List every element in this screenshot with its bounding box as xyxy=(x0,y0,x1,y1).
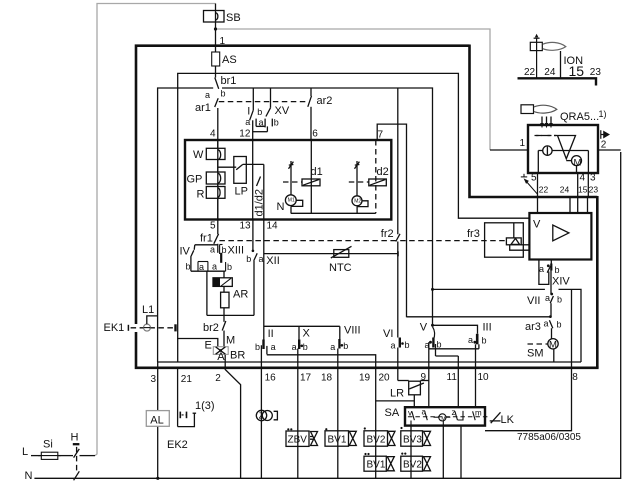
svg-text:SB: SB xyxy=(226,12,241,24)
svg-text:19: 19 xyxy=(359,372,371,383)
svg-text:17: 17 xyxy=(300,372,312,383)
svg-text:BV2: BV2 xyxy=(403,460,422,471)
svg-text:16: 16 xyxy=(265,372,277,383)
svg-text:L: L xyxy=(22,446,28,458)
svg-text:12: 12 xyxy=(239,128,251,139)
svg-text:b: b xyxy=(274,118,279,128)
svg-text:fr1: fr1 xyxy=(200,233,213,245)
svg-text:18: 18 xyxy=(321,372,333,383)
svg-text:XV: XV xyxy=(275,105,290,117)
svg-text:a: a xyxy=(212,262,217,272)
svg-text:BV2: BV2 xyxy=(367,434,386,445)
svg-text:M: M xyxy=(574,158,582,169)
svg-text:VII: VII xyxy=(527,295,540,307)
svg-text:b: b xyxy=(246,254,251,264)
svg-text:I: I xyxy=(247,106,250,118)
svg-text:LR: LR xyxy=(390,388,404,400)
svg-text:b: b xyxy=(186,262,191,272)
svg-text:9: 9 xyxy=(421,372,427,383)
svg-text:21: 21 xyxy=(181,374,193,385)
svg-text:5: 5 xyxy=(210,221,216,232)
svg-text:b: b xyxy=(303,342,308,352)
svg-text:22: 22 xyxy=(524,67,536,78)
svg-text:4: 4 xyxy=(210,129,216,140)
svg-text:10: 10 xyxy=(478,372,490,383)
svg-text:b: b xyxy=(257,107,262,117)
svg-text:a: a xyxy=(259,117,264,127)
svg-text:II: II xyxy=(268,328,274,340)
svg-text:SA: SA xyxy=(385,407,400,419)
svg-text:a: a xyxy=(468,335,473,345)
svg-text:5: 5 xyxy=(531,173,537,184)
svg-text:a: a xyxy=(271,342,276,352)
svg-text:ZBV: ZBV xyxy=(288,435,308,446)
svg-text:3: 3 xyxy=(151,374,157,385)
svg-text:fr2: fr2 xyxy=(381,228,394,240)
svg-text:b: b xyxy=(222,245,227,255)
svg-text:Si: Si xyxy=(43,439,53,451)
svg-text:a: a xyxy=(422,408,427,417)
svg-text:R: R xyxy=(197,189,205,201)
svg-text:LP: LP xyxy=(235,186,248,198)
svg-text:2: 2 xyxy=(601,139,607,150)
svg-text:ar2: ar2 xyxy=(317,95,333,107)
svg-text:H: H xyxy=(71,432,79,444)
svg-text:1): 1) xyxy=(599,109,607,119)
svg-text:BR: BR xyxy=(230,350,245,362)
svg-text:a: a xyxy=(292,342,297,352)
svg-text:13: 13 xyxy=(240,221,252,232)
svg-text:b: b xyxy=(221,89,226,99)
svg-text:M: M xyxy=(441,416,445,422)
svg-text:ar3: ar3 xyxy=(525,321,541,333)
svg-text:QRA5...: QRA5... xyxy=(560,111,599,123)
svg-text:22: 22 xyxy=(539,185,549,195)
svg-text:b: b xyxy=(482,336,487,346)
svg-text:11: 11 xyxy=(447,372,458,383)
svg-text:a: a xyxy=(425,340,430,350)
svg-text:Z: Z xyxy=(259,412,264,421)
svg-text:a: a xyxy=(210,245,215,255)
svg-text:IV: IV xyxy=(180,246,191,258)
svg-text:VIII: VIII xyxy=(344,325,361,337)
svg-text:1: 1 xyxy=(220,36,226,47)
svg-text:6: 6 xyxy=(312,129,318,140)
svg-text:23: 23 xyxy=(589,185,599,195)
svg-text:E: E xyxy=(205,340,212,352)
svg-text:W: W xyxy=(193,149,204,161)
svg-text:M2: M2 xyxy=(354,199,361,205)
svg-text:X: X xyxy=(303,327,311,339)
svg-text:a: a xyxy=(539,264,544,274)
svg-text:BV1: BV1 xyxy=(367,460,386,471)
svg-text:XII: XII xyxy=(266,255,279,267)
svg-text:N: N xyxy=(25,470,33,482)
svg-text:m: m xyxy=(475,409,482,418)
svg-text:fr3: fr3 xyxy=(467,228,480,240)
svg-text:AS: AS xyxy=(222,54,237,66)
svg-text:L1: L1 xyxy=(142,304,154,316)
svg-text:A: A xyxy=(217,351,225,363)
svg-text:GP: GP xyxy=(187,174,203,186)
svg-text:a: a xyxy=(544,319,549,329)
svg-text:AR: AR xyxy=(233,289,248,301)
svg-text:2: 2 xyxy=(215,373,221,384)
svg-text:b: b xyxy=(255,342,260,352)
svg-text:SM: SM xyxy=(527,348,544,360)
svg-text:d1/d2: d1/d2 xyxy=(254,189,266,217)
svg-text:a: a xyxy=(199,262,204,272)
svg-text:a: a xyxy=(259,254,264,264)
svg-text:b: b xyxy=(555,265,560,275)
svg-text:3: 3 xyxy=(590,173,596,184)
svg-text:15: 15 xyxy=(569,63,585,79)
svg-text:20: 20 xyxy=(379,372,391,383)
svg-text:N: N xyxy=(277,201,285,213)
svg-text:EK1: EK1 xyxy=(104,322,125,334)
svg-text:b: b xyxy=(227,262,232,272)
svg-text:b: b xyxy=(557,320,562,330)
svg-text:a: a xyxy=(391,341,396,351)
svg-text:VI: VI xyxy=(383,328,393,340)
svg-text:8: 8 xyxy=(572,372,578,383)
svg-text:d2: d2 xyxy=(377,166,389,178)
svg-text:BV1: BV1 xyxy=(328,434,347,445)
svg-text:14: 14 xyxy=(267,221,279,232)
svg-text:NTC: NTC xyxy=(329,262,352,274)
svg-text:ar1: ar1 xyxy=(195,102,211,114)
svg-text:III: III xyxy=(483,322,492,334)
svg-text:BV3: BV3 xyxy=(403,434,422,445)
svg-text:d1: d1 xyxy=(311,166,323,178)
svg-text:7785a06/0305: 7785a06/0305 xyxy=(517,432,581,443)
svg-text:AL: AL xyxy=(150,415,163,427)
svg-text:23: 23 xyxy=(590,67,602,78)
svg-text:z: z xyxy=(452,408,456,417)
svg-text:M: M xyxy=(226,335,235,347)
svg-text:br2: br2 xyxy=(203,322,219,334)
svg-text:M1: M1 xyxy=(288,198,295,204)
svg-text:a: a xyxy=(330,342,335,352)
svg-text:EK2: EK2 xyxy=(167,439,188,451)
svg-text:v: v xyxy=(408,409,412,418)
svg-text:a: a xyxy=(245,117,250,127)
svg-text:b: b xyxy=(343,341,348,351)
svg-text:XIV: XIV xyxy=(552,276,570,288)
svg-text:1: 1 xyxy=(520,138,526,149)
svg-text:b: b xyxy=(437,340,442,350)
svg-text:V: V xyxy=(420,321,428,333)
svg-text:V: V xyxy=(533,219,541,231)
svg-text:4: 4 xyxy=(580,173,586,184)
svg-text:24: 24 xyxy=(560,185,570,195)
svg-text:br1: br1 xyxy=(221,75,237,87)
svg-text:7: 7 xyxy=(378,130,384,141)
svg-text:b: b xyxy=(557,295,562,305)
svg-text:a: a xyxy=(205,90,210,100)
svg-text:XIII: XIII xyxy=(228,245,245,257)
svg-text:b: b xyxy=(405,340,410,350)
svg-text:15: 15 xyxy=(578,185,588,195)
svg-text:LK: LK xyxy=(501,414,515,426)
svg-text:M: M xyxy=(549,340,557,351)
svg-text:a: a xyxy=(545,293,550,303)
svg-text:1(3): 1(3) xyxy=(195,400,215,412)
svg-text:24: 24 xyxy=(544,67,556,78)
